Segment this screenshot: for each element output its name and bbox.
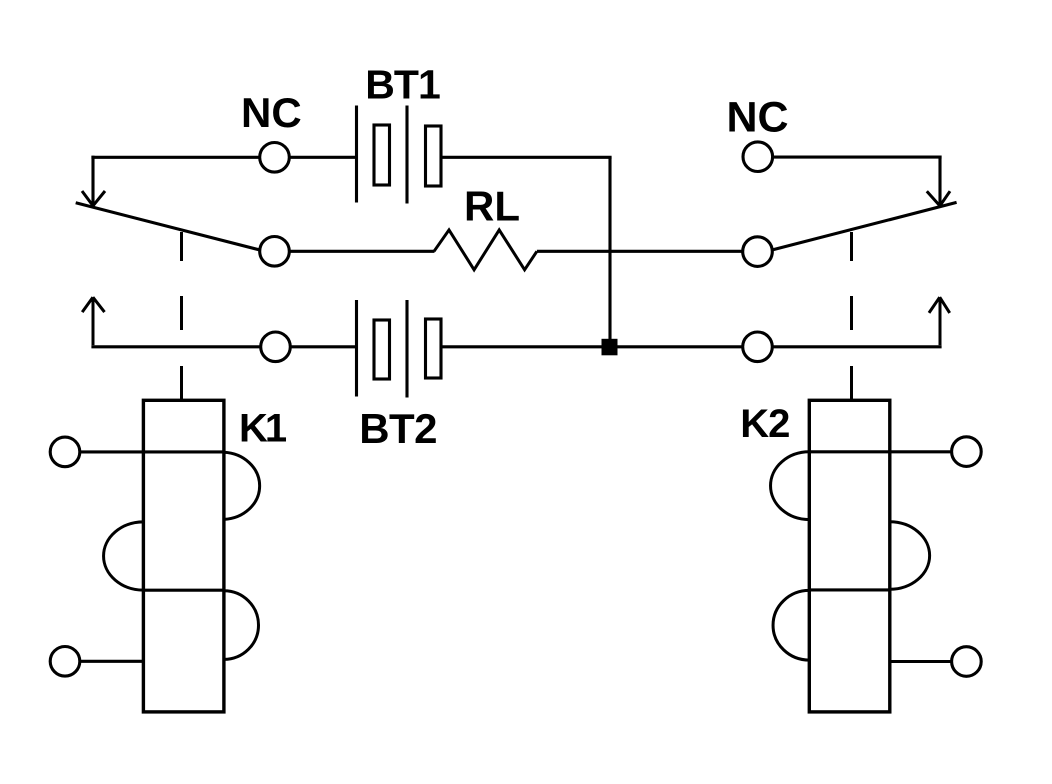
dashed actuator link K2 to SW2 <box>850 232 853 399</box>
svg-text:K2: K2 <box>740 402 789 446</box>
arrow up left <box>82 297 104 345</box>
relay K1 terminal circle bottom <box>50 647 80 677</box>
terminal circle common right (middle row) <box>743 237 773 267</box>
wire bottom row BT2 to right contact <box>441 345 942 348</box>
battery BT2 plate short 1 <box>374 320 390 379</box>
svg-text:BT2: BT2 <box>359 405 437 452</box>
svg-text:BT1: BT1 <box>365 62 440 108</box>
relay K2 terminal circle top <box>952 437 982 467</box>
wire vertical from BT1 corner down to junction <box>608 157 611 347</box>
wire top-right horizontal (NC2 contact to corner) <box>772 156 942 159</box>
wire middle-left (contact to resistor) <box>260 250 435 253</box>
dashed actuator link K1 to SW1 <box>180 232 183 399</box>
terminal circle NO left (bottom row) <box>261 332 291 362</box>
battery BT1 plate long 2 <box>405 106 408 204</box>
battery BT2 plate long 1 <box>355 300 358 397</box>
battery BT2 plate long 2 <box>405 300 408 398</box>
relay K2 coil wire bottom <box>890 660 952 663</box>
wire bottom-left horizontal <box>91 345 357 348</box>
junction node (solder square) <box>602 339 618 356</box>
svg-text:RL: RL <box>464 183 520 230</box>
terminal circle NO right (bottom row) <box>743 332 773 362</box>
relay K2 coil loop 2 (right) <box>890 522 930 590</box>
svg-text:K1: K1 <box>239 406 287 450</box>
wire top-left vertical drop <box>91 156 94 205</box>
relay K2 coil wire top <box>809 450 952 453</box>
relay K2 coil loop 1 (left) <box>771 452 810 520</box>
relay K1 coil wire middle <box>143 589 224 592</box>
wire top-right vertical drop <box>938 156 941 205</box>
wire top-left horizontal (NC1 contact to corner) <box>91 156 357 159</box>
switch lever SW2 (right, NC) <box>769 202 957 250</box>
relay K2 terminal circle bottom <box>952 647 982 677</box>
terminal circle NC1 <box>260 143 290 173</box>
resistor RL zigzag <box>434 230 537 270</box>
terminal circle common left (middle row) <box>260 237 290 267</box>
relay K1 core rectangle <box>143 400 224 712</box>
arrowhead down (left switch pivot) <box>82 191 105 206</box>
arrowhead down (right switch pivot) <box>927 191 950 206</box>
wire top-right of BT1 to corner <box>441 156 612 159</box>
relay K1 coil wire bottom <box>79 660 143 663</box>
relay K2 coil loop 3 (left) <box>773 590 809 660</box>
terminal circle NC2 <box>743 142 773 172</box>
relay K1 coil loop 2 (left) <box>104 522 144 590</box>
wire middle row resistor to right contact <box>537 250 745 253</box>
arrow up right <box>929 297 950 345</box>
relay K2 core rectangle <box>809 400 890 712</box>
relay K2 coil wire middle <box>809 588 889 591</box>
svg-text:NC: NC <box>727 93 789 141</box>
switch lever SW1 (left, NC) <box>76 203 263 251</box>
battery BT1 plate long 1 <box>355 106 358 203</box>
relay K1 coil wire top <box>79 450 224 453</box>
relay K1 coil loop 1 (right) <box>224 452 260 519</box>
battery BT1 plate short 2 <box>426 126 442 186</box>
relay K1 coil loop 3 (right) <box>224 591 259 660</box>
battery BT1 plate short 1 <box>374 125 390 185</box>
relay K1 terminal circle top <box>50 437 80 467</box>
svg-text:NC: NC <box>241 89 302 136</box>
battery BT2 plate short 2 <box>426 319 442 378</box>
